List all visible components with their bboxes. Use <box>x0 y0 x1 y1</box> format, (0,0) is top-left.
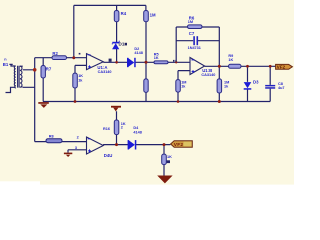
svg-text:1K: 1K <box>167 155 172 159</box>
svg-text:D3: D3 <box>253 80 259 85</box>
svg-text:3: 3 <box>75 146 77 150</box>
svg-text:VF2: VF2 <box>277 65 286 70</box>
svg-text:2: 2 <box>121 126 123 130</box>
svg-text:CA3140: CA3140 <box>98 70 112 74</box>
svg-text:1N4731: 1N4731 <box>188 46 201 50</box>
svg-text:4148: 4148 <box>134 51 142 55</box>
svg-text:1K: 1K <box>154 56 159 60</box>
svg-text:1M: 1M <box>150 12 156 17</box>
svg-text:VF2: VF2 <box>174 142 184 148</box>
svg-text:C7: C7 <box>189 31 195 36</box>
svg-text:CA3140: CA3140 <box>201 73 215 77</box>
svg-text:4148: 4148 <box>133 131 141 135</box>
svg-text:4u7: 4u7 <box>278 86 285 90</box>
svg-text:R2: R2 <box>52 51 58 56</box>
svg-text:2: 2 <box>77 136 79 140</box>
svg-text:R7: R7 <box>46 66 52 71</box>
svg-text:D4U: D4U <box>104 153 113 158</box>
svg-text:1K: 1K <box>78 74 83 78</box>
svg-text:1K: 1K <box>228 58 233 62</box>
svg-text:R16: R16 <box>103 127 110 131</box>
svg-text:B1: B1 <box>3 62 9 67</box>
svg-text:D1: D1 <box>119 42 125 47</box>
svg-text:1M: 1M <box>188 20 193 24</box>
svg-text:R4: R4 <box>121 11 127 16</box>
svg-text:R8: R8 <box>49 135 54 139</box>
